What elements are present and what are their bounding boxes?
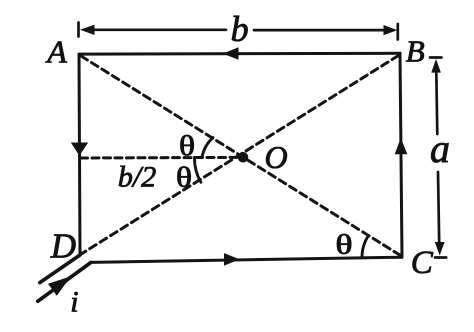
angle arc lower at O [194, 157, 200, 182]
svg-text:D: D [50, 227, 76, 266]
diagonal BD (dashed) [82, 56, 399, 254]
dimension line b (top) [79, 23, 398, 40]
angle arc at C [362, 236, 368, 258]
current arrow on AB pointing left [223, 47, 239, 60]
svg-text:i: i [70, 286, 78, 319]
svg-text:θ: θ [179, 131, 195, 162]
tick top [430, 56, 442, 59]
angle arc upper at O [202, 138, 213, 158]
side BC (right edge) [400, 53, 402, 257]
svg-text:B: B [406, 34, 425, 69]
tick bottom [435, 256, 446, 259]
svg-text:A: A [45, 34, 67, 70]
side AD (left edge) [79, 54, 80, 255]
side AB (top edge) [79, 52, 400, 56]
dimension line a (right) [430, 58, 446, 258]
svg-text:b/2: b/2 [118, 161, 156, 194]
svg-text:O: O [265, 139, 288, 175]
svg-text:C: C [411, 245, 434, 281]
current arrow on BC pointing up [395, 138, 408, 155]
node O (center dot) [238, 152, 249, 163]
lead wire lower at D [38, 262, 91, 301]
dashed half-width line b/2 [81, 156, 237, 160]
svg-text:b: b [231, 9, 249, 49]
svg-text:a: a [430, 126, 450, 171]
current arrow on AD pointing down [71, 143, 88, 156]
svg-text:θ: θ [336, 230, 353, 260]
current arrow on DC pointing right [224, 253, 240, 266]
current i arrowhead on lead [48, 276, 71, 296]
tick right [396, 24, 399, 40]
lead wire upper at D [40, 255, 80, 283]
svg-text:θ: θ [176, 163, 192, 194]
tick left [77, 23, 80, 37]
diagonal AC (dashed) [81, 56, 401, 256]
side DC (bottom edge) [91, 257, 402, 262]
